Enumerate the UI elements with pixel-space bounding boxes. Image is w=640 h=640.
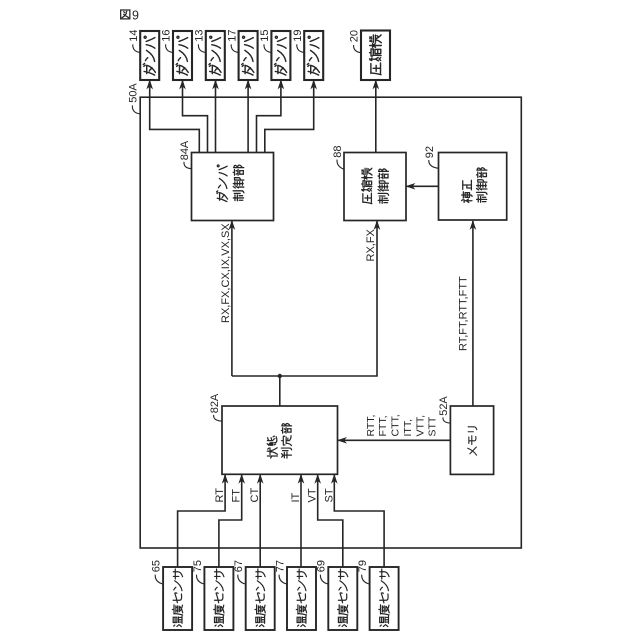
block damper 13 (ダンパ) <box>206 31 225 80</box>
svg-text:FT: FT <box>231 489 243 503</box>
ref numeral 65 with leader <box>151 560 163 584</box>
wire sensor 67 to 82A (CT) <box>259 475 261 567</box>
svg-text:RX,FX: RX,FX <box>365 228 377 261</box>
svg-text:19: 19 <box>292 30 304 42</box>
ref numeral 16 with leader <box>161 30 173 53</box>
svg-text:84A: 84A <box>179 140 191 160</box>
svg-text:ITT,: ITT, <box>402 419 414 437</box>
svg-text:88: 88 <box>332 146 344 158</box>
figure label 図9 <box>121 10 130 19</box>
svg-text:67: 67 <box>233 560 245 572</box>
block damper 17 (ダンパ) <box>239 31 258 80</box>
ref numeral 92 with leader <box>424 146 438 168</box>
block temperature sensor 温度センサ (65) <box>163 567 192 630</box>
wire 88 to compressor 20 <box>375 81 377 153</box>
svg-text:65: 65 <box>151 560 163 572</box>
ref numeral 69 with leader <box>316 560 328 584</box>
svg-text:RT,FT,RTT,FTT: RT,FT,RTT,FTT <box>458 276 470 351</box>
svg-text:RT: RT <box>214 488 226 503</box>
wire 82A to 84A and 88 (branch) <box>231 221 233 376</box>
ref numeral 15 with leader <box>259 30 271 53</box>
wire sensor 77 to 82A (IT) <box>300 475 302 567</box>
svg-text:82A: 82A <box>209 393 221 413</box>
ref numeral 19 with leader <box>292 30 304 53</box>
svg-text:20: 20 <box>349 30 361 42</box>
ref numeral 20 with leader <box>349 30 361 53</box>
ref numeral 13 with leader <box>194 30 206 53</box>
svg-text:50A: 50A <box>128 83 140 103</box>
svg-text:13: 13 <box>194 30 206 42</box>
ref numeral 17 with leader <box>226 30 238 53</box>
wire memory 52A to 92 <box>472 221 474 406</box>
svg-text:RX,FX,CX,IX,VX,SX: RX,FX,CX,IX,VX,SX <box>220 223 232 323</box>
ref numeral 75 with leader <box>192 560 204 584</box>
svg-text:16: 16 <box>161 30 173 42</box>
block correction control unit 補正制御部 (92) <box>439 153 507 221</box>
svg-text:STT: STT <box>427 416 439 436</box>
wire 84A to damper 15 <box>257 81 281 153</box>
block temperature sensor 温度センサ (79) <box>370 567 399 630</box>
svg-text:14: 14 <box>128 30 140 42</box>
svg-text:VTT,: VTT, <box>415 415 427 437</box>
wire 84A to damper 17 <box>247 81 249 153</box>
svg-text:CT: CT <box>249 488 261 503</box>
svg-text:75: 75 <box>192 560 204 572</box>
svg-text:15: 15 <box>259 30 271 42</box>
ref numeral 82A with leader <box>209 393 222 421</box>
svg-text:CTT,: CTT, <box>390 414 402 436</box>
svg-text:RTT,: RTT, <box>365 415 377 437</box>
svg-text:52A: 52A <box>438 396 450 416</box>
svg-text:FTT,: FTT, <box>377 416 389 437</box>
junction node <box>278 374 282 378</box>
ref numeral 14 with leader <box>128 30 140 53</box>
svg-text:17: 17 <box>226 30 238 42</box>
block memory メモリ (52A) <box>450 406 493 474</box>
wire sensor 69 to 82A (VT) <box>318 475 343 567</box>
ref numeral 77 with leader <box>274 560 286 584</box>
svg-text:VT: VT <box>307 488 319 502</box>
outer controller box 50A <box>140 97 521 548</box>
block damper control unit ダンパ制御部 (84A) <box>192 153 274 221</box>
svg-text:69: 69 <box>316 560 328 572</box>
wire sensor 65 to 82A (RT) <box>178 475 226 567</box>
ref numeral 52A with leader <box>438 396 450 424</box>
wire 84A to damper 13 <box>215 81 217 153</box>
wire 92 to 88 <box>407 185 439 187</box>
block damper 15 (ダンパ) <box>271 31 290 80</box>
block temperature sensor 温度センサ (67) <box>246 567 275 630</box>
wire sensor 75 to 82A (FT) <box>219 475 242 567</box>
block temperature sensor 温度センサ (69) <box>328 567 357 630</box>
wire 84A to damper 19 <box>265 81 314 153</box>
block damper 16 (ダンパ) <box>173 31 192 80</box>
svg-text:ST: ST <box>323 488 335 502</box>
ref numeral 84A with leader <box>179 140 191 169</box>
svg-text:9: 9 <box>132 9 139 23</box>
ref numeral 67 with leader <box>233 560 245 584</box>
block damper 14 (ダンパ) <box>140 31 159 80</box>
ref numeral 88 with leader <box>332 146 344 170</box>
wire 84A to damper 16 <box>183 81 208 153</box>
block temperature sensor 温度センサ (77) <box>287 567 316 630</box>
block damper 19 (ダンパ) <box>304 31 323 80</box>
block compressor 圧縮機 (20) <box>361 31 390 81</box>
block compressor control unit 圧縮機制御部 (88) <box>344 153 406 221</box>
svg-text:IT: IT <box>290 492 302 502</box>
svg-text:92: 92 <box>424 146 436 158</box>
svg-text:79: 79 <box>357 560 369 572</box>
block temperature sensor 温度センサ (75) <box>204 567 233 630</box>
wire sensor 79 to 82A (ST) <box>334 475 384 567</box>
wire memory 52A to 82A <box>338 439 450 441</box>
ref numeral 50A with leader <box>128 83 140 114</box>
wire 84A to damper 14 <box>150 81 200 153</box>
ref numeral 79 with leader <box>357 560 369 584</box>
block state determination unit 状態判定部 (82A) <box>222 406 338 474</box>
svg-text:77: 77 <box>274 560 286 572</box>
